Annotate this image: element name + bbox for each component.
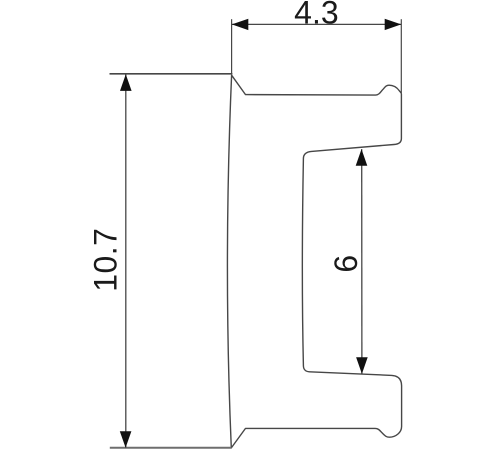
svg-text:6: 6 [328, 255, 364, 273]
dim 6 arrow bottom [356, 357, 368, 374]
dim 10.7 dimension line [125, 75, 127, 448]
svg-text:10.7: 10.7 [88, 228, 124, 292]
svg-text:4.3: 4.3 [294, 0, 338, 31]
dim 10.7 arrow top [120, 74, 132, 91]
dim 4.3 extension line left [231, 19, 233, 74]
dim 6 arrow top [356, 149, 368, 166]
dim 10.7 extension line bottom [110, 447, 232, 449]
dim 4.3 arrow left [232, 19, 249, 30]
dim 6 dimension line [361, 149, 363, 374]
profile outline [228, 75, 402, 448]
dim 10.7 arrow bottom [120, 431, 132, 448]
dim 10.7 extension line top [110, 73, 233, 75]
dim 4.3 arrow right [385, 19, 402, 30]
dim 4.3 dimension line [232, 23, 401, 25]
dim 4.3 extension line right [400, 19, 402, 93]
